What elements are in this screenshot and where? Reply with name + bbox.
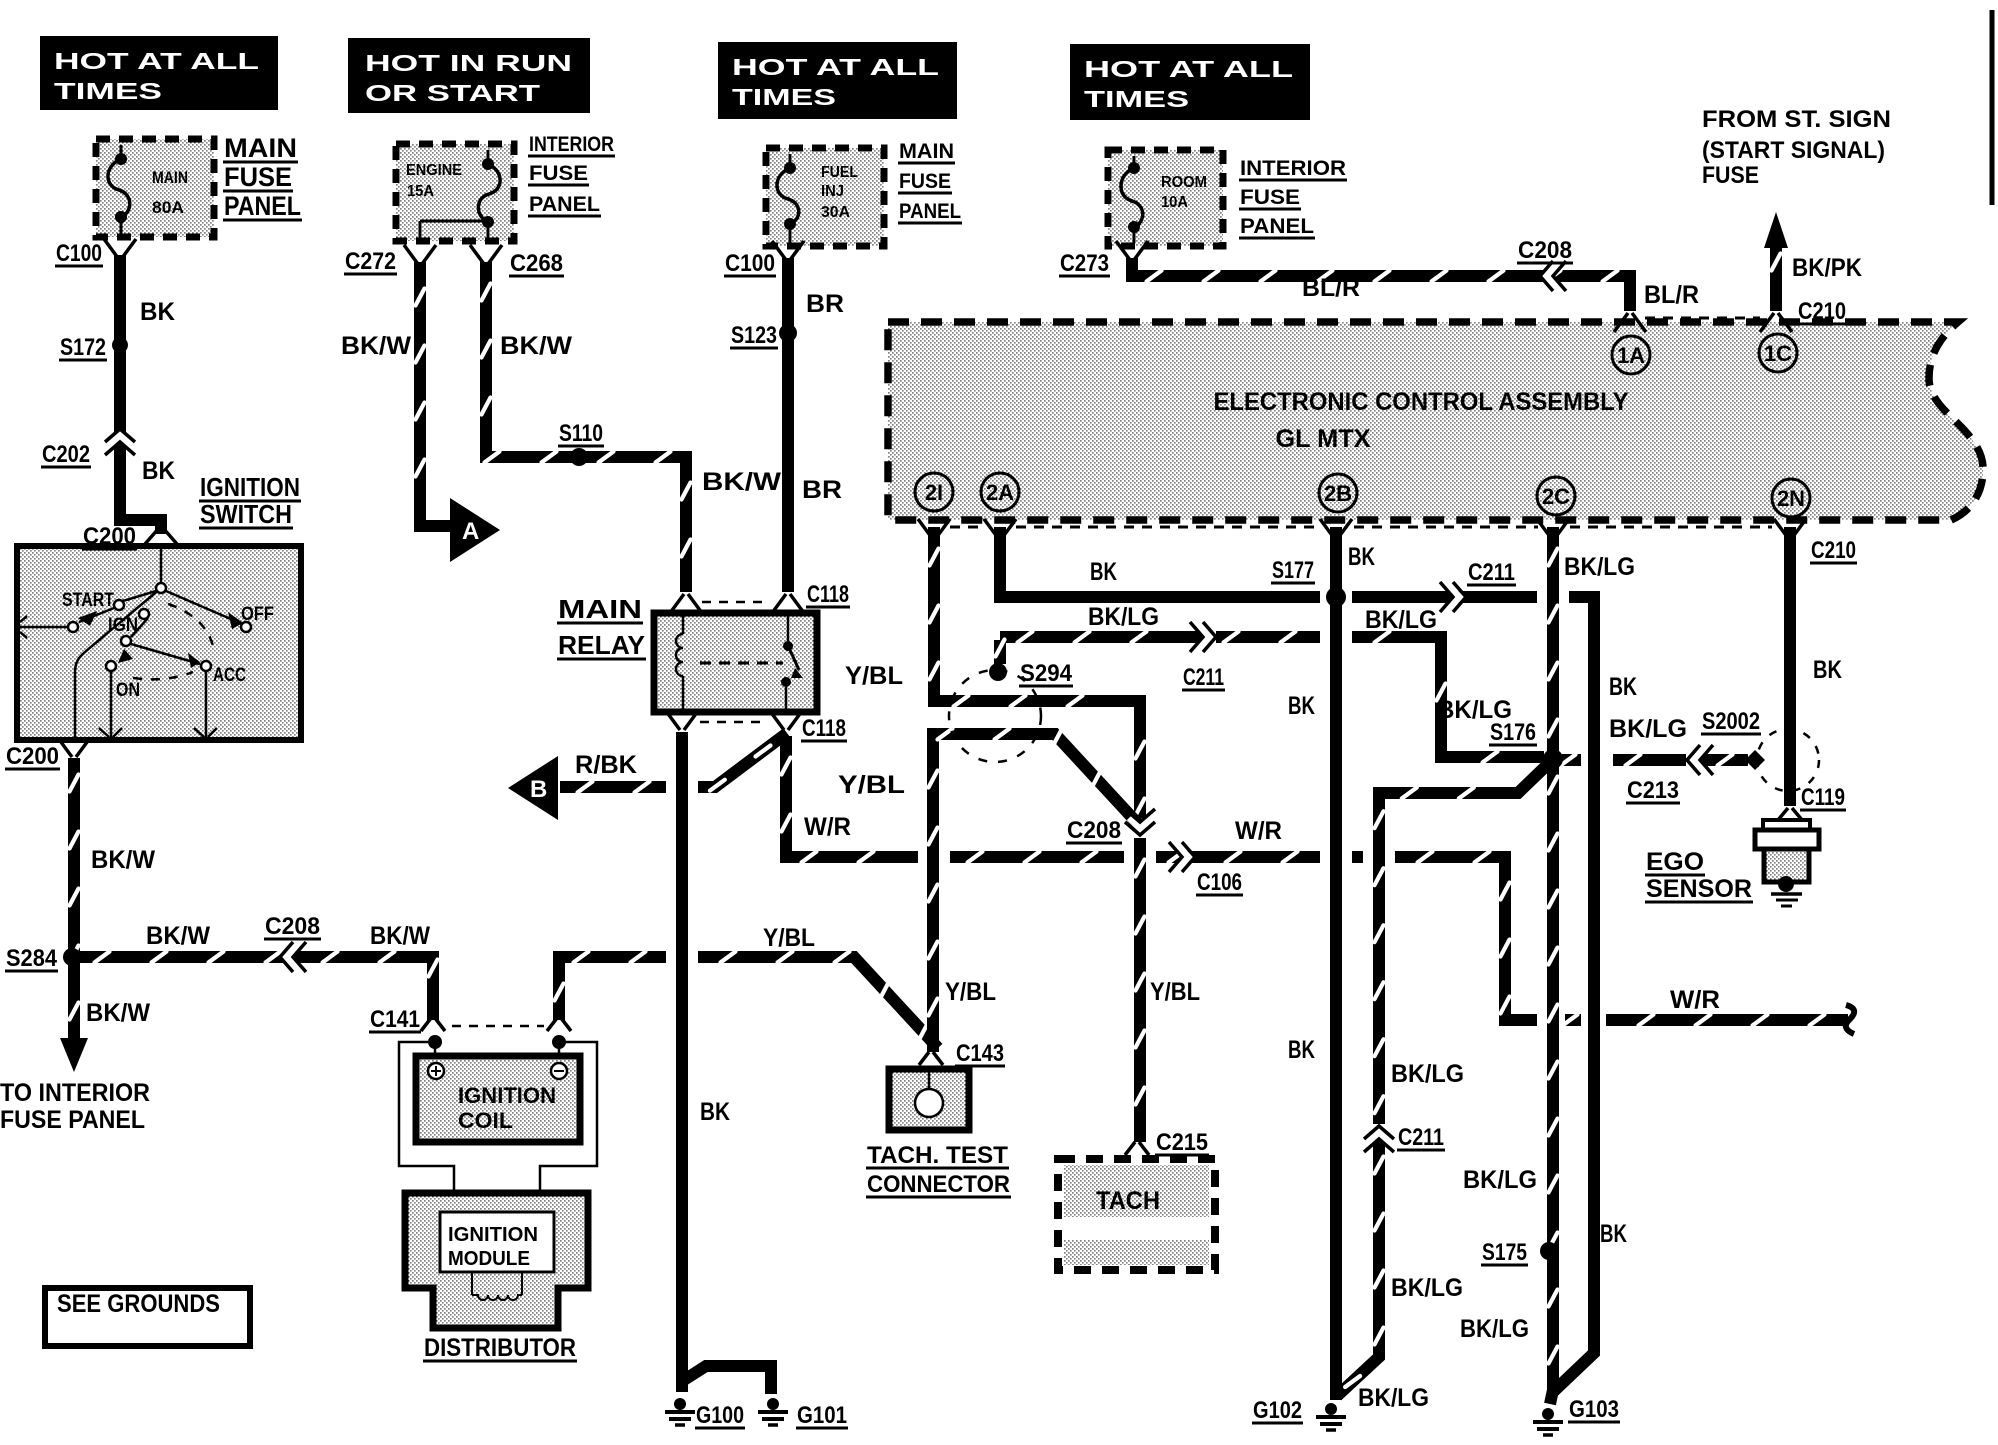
header: HOT AT ALL TIMES (1) [40, 36, 278, 110]
ground G102 [1325, 1403, 1337, 1415]
svg-text:BK/W: BK/W [370, 922, 430, 950]
wire BK/LG to C213 [1613, 754, 1686, 766]
svg-text:C273: C273 [1060, 250, 1109, 277]
splice S175 [1540, 1242, 1558, 1260]
svg-text:C210: C210 [1811, 537, 1856, 564]
wire BK/W S284 to C141 ignition coil + [72, 957, 433, 1020]
wire BK C100 to ignition switch [120, 255, 161, 534]
svg-text:BK/W: BK/W [702, 468, 781, 496]
svg-text:BK: BK [140, 298, 175, 326]
svg-text:W/R: W/R [1235, 817, 1282, 845]
svg-text:BK: BK [1348, 543, 1375, 571]
svg-text:TIMES: TIMES [54, 78, 162, 104]
splice S123 [779, 324, 797, 342]
svg-text:MAIN: MAIN [558, 594, 642, 624]
tach box (dashed) [1058, 1159, 1215, 1270]
ECA pin 2I [915, 473, 953, 511]
svg-text:BK/LG: BK/LG [1460, 1315, 1529, 1343]
distributor outline [405, 1193, 588, 1328]
wire BR fuse to main relay [782, 258, 794, 592]
ignition coil thin case wires [399, 1042, 454, 1212]
connector fork at ECA pin [918, 519, 950, 538]
svg-text:C106: C106 [1197, 869, 1242, 896]
connector fork at ECA pin [1774, 519, 1806, 538]
wire BK/LG S176 stub [1562, 754, 1581, 766]
svg-text:C100: C100 [56, 240, 102, 267]
ignition coil box [416, 1056, 580, 1142]
connector mating line bottom of ECA [950, 526, 985, 529]
main relay contact [700, 662, 783, 665]
svg-text:BK/W: BK/W [91, 846, 155, 874]
connector fork C100 (fuse 1) [104, 239, 136, 258]
svg-text:S2002: S2002 [1702, 708, 1760, 735]
svg-text:HOT AT ALL: HOT AT ALL [54, 48, 259, 74]
svg-text:W/R: W/R [804, 813, 851, 841]
ECA pin 2N [1772, 479, 1810, 517]
svg-text:G103: G103 [1569, 1396, 1619, 1423]
svg-text:S172: S172 [60, 334, 106, 361]
header: HOT IN RUN OR START [348, 38, 590, 113]
svg-text:S110: S110 [559, 420, 603, 447]
svg-text:(START SIGNAL): (START SIGNAL) [1702, 137, 1885, 164]
connector C202 [110, 436, 130, 446]
svg-text:IGNITION: IGNITION [448, 1224, 538, 1246]
ignition module box [440, 1212, 554, 1272]
svg-text:SWITCH: SWITCH [200, 499, 292, 529]
svg-text:TIMES: TIMES [1084, 86, 1189, 112]
wire BK/LG C211 segment [1216, 631, 1320, 643]
fuse FUEL INJ 30A symbol [789, 154, 792, 168]
svg-text:A: A [462, 518, 479, 545]
connector fork C215 [1125, 1142, 1149, 1155]
electronic control assembly box [888, 322, 1983, 520]
svg-text:Y/BL: Y/BL [1150, 978, 1200, 1006]
wire BK/W C268 via S110 to main relay [486, 262, 686, 592]
svg-text:R/BK: R/BK [575, 751, 637, 779]
svg-text:IGNITION: IGNITION [458, 1083, 556, 1108]
svg-text:C119: C119 [1801, 784, 1845, 811]
wire BK/W C272 to arrow A [420, 262, 452, 526]
svg-text:INJ: INJ [821, 183, 844, 200]
svg-text:FROM ST. SIGN: FROM ST. SIGN [1702, 106, 1891, 133]
connector fork C118 top-right [772, 594, 804, 613]
connector fork C200 bottom [58, 738, 90, 757]
fuse panel box: INTERIOR FUSE PANEL (ENGINE 15A) [396, 144, 514, 241]
wire W/R segment past C106 [1156, 851, 1320, 863]
svg-text:IGN: IGN [108, 615, 138, 636]
svg-text:SEE GROUNDS: SEE GROUNDS [57, 1290, 220, 1318]
svg-text:C208: C208 [1518, 237, 1572, 264]
svg-text:BK/LG: BK/LG [1391, 1060, 1464, 1088]
svg-text:MAIN: MAIN [899, 140, 954, 163]
dashed circle around S2002 [1757, 729, 1819, 791]
svg-text:SENSOR: SENSOR [1646, 875, 1752, 903]
svg-text:1C: 1C [1764, 341, 1792, 366]
svg-text:DISTRIBUTOR: DISTRIBUTOR [424, 1334, 576, 1362]
see grounds box [45, 1288, 250, 1346]
svg-text:BK: BK [1813, 656, 1842, 684]
svg-text:IGNITION: IGNITION [200, 472, 300, 502]
W/R squiggle arrow tip [1846, 1005, 1854, 1034]
wire W/R to lower row [1395, 857, 1537, 1020]
fuse ENGINE 15A symbol [487, 150, 490, 164]
svg-text:GL MTX: GL MTX [1276, 425, 1371, 453]
header: HOT AT ALL TIMES (2) [718, 42, 957, 119]
fuse panel box: MAIN FUSE PANEL (MAIN 80A) [96, 139, 214, 237]
wire W/R crossing stub [1352, 851, 1363, 863]
connector C208 (Y/BL) [1130, 817, 1150, 827]
pickup coil in distributor [472, 1272, 522, 1295]
svg-text:C208: C208 [265, 913, 320, 940]
svg-text:30A: 30A [821, 204, 850, 221]
svg-text:PANEL: PANEL [224, 191, 301, 221]
fuse ROOM 10A symbol [1133, 156, 1136, 168]
ignition switch box [17, 546, 301, 740]
ECA pin 1C [1759, 334, 1797, 372]
connector fork C141 right [547, 1018, 571, 1031]
svg-text:G102: G102 [1253, 1397, 1302, 1424]
svg-text:FUSE: FUSE [224, 162, 292, 192]
svg-text:C141: C141 [370, 1006, 420, 1033]
svg-text:BK: BK [1609, 673, 1637, 701]
svg-text:C211: C211 [1398, 1124, 1444, 1151]
svg-text:BK: BK [1288, 1036, 1315, 1064]
wire Y/BL ECA 2I to C208 [934, 527, 1140, 818]
svg-text:BK/W: BK/W [86, 999, 150, 1027]
svg-text:FUEL: FUEL [821, 164, 858, 181]
svg-text:FUSE: FUSE [529, 162, 588, 185]
connector fork C268 [470, 245, 502, 264]
svg-text:BK: BK [142, 457, 175, 485]
svg-text:BL/R: BL/R [1302, 274, 1360, 302]
arrow B (to other sheet) [508, 756, 558, 820]
svg-text:HOT IN RUN: HOT IN RUN [365, 50, 572, 76]
svg-text:FUSE: FUSE [1240, 186, 1300, 209]
svg-text:C202: C202 [42, 441, 90, 468]
svg-text:BK: BK [1600, 1220, 1627, 1248]
arrowhead BK/PK up arrow [1764, 212, 1788, 248]
connector C106 [1177, 847, 1187, 867]
svg-text:INTERIOR: INTERIOR [529, 133, 614, 156]
svg-text:ROOM: ROOM [1161, 174, 1207, 191]
wire BK branch to G101 [684, 1366, 771, 1394]
ECA pin 2C [1537, 477, 1575, 515]
connector fork C118 bottom-left [666, 711, 698, 730]
svg-text:BK: BK [1090, 558, 1117, 586]
svg-text:ENGINE: ENGINE [406, 162, 462, 179]
splice S177 [1326, 587, 1346, 607]
wire W/R stub [1565, 1014, 1581, 1026]
svg-text:15A: 15A [407, 183, 434, 200]
connector C208 (BK/W) [287, 947, 297, 967]
wire W/R segment [950, 851, 1124, 863]
wire BK/LG C213 to S2002 [1700, 754, 1748, 766]
svg-text:C143: C143 [956, 1040, 1004, 1067]
svg-text:S123: S123 [731, 322, 777, 349]
svg-text:S177: S177 [1272, 557, 1314, 584]
connector fork at ECA pin [1320, 519, 1352, 538]
terminal dot C141 + [428, 1035, 442, 1049]
fuse panel box: INTERIOR FUSE PANEL (ROOM 10A) [1108, 150, 1223, 246]
ECA pin 1A [1612, 336, 1650, 374]
connector fork C200 top [145, 528, 177, 544]
svg-text:C200: C200 [83, 523, 136, 550]
svg-text:OR START: OR START [365, 80, 540, 106]
svg-text:C268: C268 [510, 250, 563, 277]
svg-text:G101: G101 [797, 1402, 847, 1429]
svg-text:BL/R: BL/R [1644, 281, 1699, 309]
wire Y/BL continue to C143 junction [698, 957, 938, 1048]
EGO sensor symbol [1763, 820, 1810, 830]
svg-text:W/R: W/R [1670, 986, 1720, 1014]
svg-text:BK/W: BK/W [341, 332, 411, 360]
ground G100 [674, 1398, 686, 1410]
svg-text:PANEL: PANEL [1240, 215, 1314, 238]
svg-text:C118: C118 [807, 581, 849, 608]
svg-text:C211: C211 [1183, 664, 1224, 691]
main relay coil [682, 616, 685, 709]
ECA pin 2A [981, 473, 1019, 511]
svg-text:C118: C118 [802, 715, 846, 742]
svg-text:ON: ON [116, 680, 140, 701]
connector C211 (BK) [1448, 587, 1458, 607]
svg-text:1A: 1A [1617, 343, 1645, 368]
svg-text:2N: 2N [1777, 486, 1805, 511]
svg-text:G100: G100 [696, 1402, 744, 1429]
connector C211 (BK/LG vertical) [1369, 1133, 1389, 1143]
svg-text:C210: C210 [1798, 298, 1846, 325]
svg-text:BK/LG: BK/LG [1088, 603, 1159, 631]
svg-text:ACC: ACC [213, 665, 246, 686]
wire W/R main relay to C208 [786, 736, 918, 857]
svg-text:MAIN: MAIN [224, 133, 297, 163]
svg-text:BK/W: BK/W [500, 332, 572, 360]
svg-text:HOT AT ALL: HOT AT ALL [732, 54, 939, 80]
svg-text:TO INTERIOR: TO INTERIOR [0, 1079, 150, 1107]
svg-text:2C: 2C [1542, 484, 1570, 509]
wire R/BK at arrow B [560, 781, 666, 793]
svg-text:2B: 2B [1324, 481, 1352, 506]
wire BK ECA 2B through S177 to G102 [1330, 527, 1342, 1400]
svg-text:ELECTRONIC CONTROL ASSEMBLY: ELECTRONIC CONTROL ASSEMBLY [1214, 388, 1629, 416]
wire Y/BL tach test connector branch [933, 734, 1140, 1052]
splice S176 [1543, 749, 1563, 769]
connector fork C143 [919, 1052, 943, 1065]
svg-text:BK/LG: BK/LG [1391, 1274, 1463, 1302]
svg-text:S294: S294 [1020, 660, 1073, 687]
svg-text:HOT AT ALL: HOT AT ALL [1084, 56, 1293, 82]
wire BK/LG ECA 2C through S176 S175 to G103 [1550, 527, 1553, 1404]
svg-text:INTERIOR: INTERIOR [1240, 157, 1346, 180]
connector C213 [1694, 750, 1704, 770]
minus terminal [551, 1063, 567, 1079]
wire BK ECA 2A to S177 [1000, 527, 1320, 597]
connector fork C100 (fuse 3) [772, 241, 804, 260]
svg-text:FUSE: FUSE [899, 170, 951, 193]
svg-text:BK/LG: BK/LG [1358, 1384, 1429, 1412]
connector fork C119 [1778, 808, 1802, 820]
wire BL/R C273 to ECA pin 1A [1132, 258, 1630, 311]
wire Y/BL C208 to TACH C215 [1134, 838, 1146, 1142]
wire W/R to arrow right [1606, 1014, 1848, 1026]
svg-text:2I: 2I [925, 480, 943, 505]
plus terminal [428, 1063, 444, 1079]
svg-text:BK/LG: BK/LG [1609, 715, 1687, 743]
svg-text:OFF: OFF [241, 604, 274, 625]
splice S110 [570, 448, 588, 466]
svg-text:Y/BL: Y/BL [838, 771, 905, 799]
svg-text:B: B [530, 776, 547, 803]
svg-text:Y/BL: Y/BL [845, 662, 903, 690]
svg-text:MODULE: MODULE [448, 1248, 530, 1270]
svg-text:PANEL: PANEL [529, 193, 600, 216]
svg-text:BK: BK [1288, 692, 1315, 720]
fuse panel box: MAIN FUSE PANEL (FUEL INJ 30A) [766, 148, 884, 246]
svg-text:EGO: EGO [1646, 848, 1704, 876]
svg-text:80A: 80A [152, 198, 184, 217]
svg-text:PANEL: PANEL [899, 200, 961, 223]
svg-text:C215: C215 [1156, 1129, 1208, 1156]
tach test connector box [889, 1069, 969, 1130]
svg-text:TACH. TEST: TACH. TEST [867, 1142, 1008, 1169]
header: HOT AT ALL TIMES (3) [1070, 44, 1310, 120]
svg-text:BK/PK: BK/PK [1792, 254, 1862, 282]
page edge line top right [1990, 10, 1995, 205]
connector fork C273 [1116, 241, 1148, 260]
fuse MAIN 80A symbol [120, 145, 123, 159]
ignition switch internals [20, 546, 240, 737]
svg-text:COIL: COIL [458, 1108, 513, 1133]
wire BK/W C200 to S284 to interior fuse panel [68, 758, 80, 1042]
connector fork C272 [404, 245, 436, 264]
connector C210 dashed mating line top [1645, 317, 1760, 320]
svg-text:MAIN: MAIN [152, 168, 188, 187]
connector C208 (BL/R) [1547, 266, 1557, 286]
svg-text:FUSE: FUSE [1702, 162, 1759, 189]
svg-text:Y/BL: Y/BL [763, 924, 815, 952]
svg-text:C272: C272 [345, 248, 396, 275]
svg-text:CONNECTOR: CONNECTOR [867, 1171, 1010, 1198]
ECA pin 2B [1319, 474, 1357, 512]
connector fork at ECA pin [984, 519, 1016, 538]
svg-text:C213: C213 [1627, 777, 1679, 804]
splice S2002 [1745, 750, 1765, 770]
splice S172 [112, 337, 128, 353]
connector fork C141 left [421, 1018, 445, 1031]
svg-text:S284: S284 [6, 945, 58, 972]
dashed circle around S294 [949, 670, 1041, 762]
wire BK/LG to S176 [1352, 637, 1544, 757]
wire BK/LG C211 to G102 [1337, 1140, 1379, 1396]
svg-text:BR: BR [802, 476, 842, 504]
wire BK/LG stub to S294 [994, 640, 1006, 664]
connector fork at ECA pin [1537, 519, 1569, 538]
wire BK/LG to C211 [1000, 631, 1202, 643]
wire BK C211 down to G103 [1553, 597, 1594, 1392]
arrowhead BK/W down arrow to interior fuse panel [60, 1038, 88, 1072]
svg-text:RELAY: RELAY [558, 630, 645, 660]
connector fork C118 bottom-right [770, 711, 802, 730]
svg-text:BK/W: BK/W [146, 922, 210, 950]
wire BK/PK from ECA pin 1C [1770, 244, 1782, 311]
svg-text:BK/LG: BK/LG [1365, 606, 1437, 634]
wire Y/BL ignition coil - to tach circuit [559, 957, 666, 1020]
svg-text:BR: BR [806, 290, 844, 318]
svg-text:BK/LG: BK/LG [1463, 1166, 1537, 1194]
wire BK ECA 2N to EGO sensor [1784, 527, 1796, 806]
arrow A (to other sheet) [450, 498, 500, 562]
svg-text:10A: 10A [1161, 194, 1188, 211]
svg-text:BK/LG: BK/LG [1564, 553, 1635, 581]
svg-text:C100: C100 [725, 250, 775, 277]
svg-text:TIMES: TIMES [732, 84, 836, 110]
connector fork BK/PK at ECA (C210) [1760, 313, 1792, 332]
svg-text:BK: BK [700, 1098, 730, 1126]
wire BK main relay to G100 [676, 732, 688, 1392]
svg-text:TACH: TACH [1096, 1187, 1160, 1215]
svg-text:C200: C200 [6, 743, 59, 770]
wire R/BK main relay to arrow B [698, 733, 787, 787]
wire BK/LG S176 to C211 down [1379, 765, 1547, 1124]
svg-text:FUSE PANEL: FUSE PANEL [0, 1106, 145, 1134]
wire BK S177 to C211 [1352, 591, 1537, 603]
terminal dot C141 - [552, 1035, 566, 1049]
svg-text:BK/LG: BK/LG [1437, 696, 1512, 724]
svg-text:2A: 2A [986, 480, 1014, 505]
main relay box [654, 613, 817, 712]
splice S284 [63, 948, 81, 966]
connector fork BL/R at ECA [1614, 313, 1646, 332]
ground G103 [1542, 1408, 1554, 1420]
connector fork C118 top-left [670, 594, 702, 613]
splice S294 [989, 663, 1007, 681]
svg-text:START: START [62, 590, 114, 611]
svg-text:S175: S175 [1482, 1239, 1527, 1266]
connector C211 (BK/LG) [1198, 627, 1208, 647]
ground G101 [767, 1398, 779, 1410]
svg-text:Y/BL: Y/BL [945, 978, 996, 1006]
svg-text:C211: C211 [1468, 559, 1515, 586]
svg-text:C208: C208 [1067, 817, 1121, 844]
